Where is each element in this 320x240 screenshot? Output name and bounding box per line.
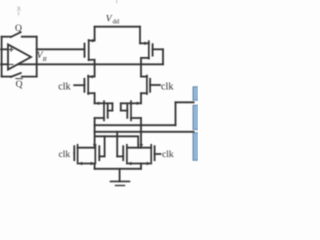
svg-text:dd: dd	[113, 18, 120, 25]
svg-text:Q: Q	[15, 23, 22, 34]
svg-text:Q: Q	[16, 79, 23, 90]
svg-text:clk: clk	[59, 149, 71, 160]
svg-text:clk: clk	[58, 82, 71, 93]
svg-text:clk: clk	[162, 149, 174, 160]
svg-text:clk: clk	[161, 82, 174, 93]
svg-text:R: R	[42, 56, 47, 63]
